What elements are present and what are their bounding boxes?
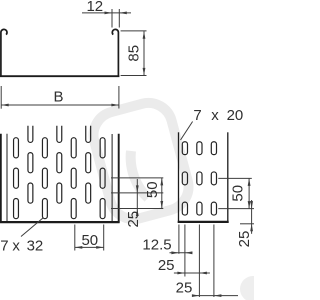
side bottom dimensions 12.5, 25, 25 (column offsets) (170, 225, 239, 298)
wire extension line bottom (121, 75, 147, 77)
slot column 3 row 2 (42, 168, 47, 188)
slot column 3 row 3 (211, 202, 216, 215)
cross-section view: U-channel profile (0, 29, 119, 76)
plan view slots 7x32 (14, 126, 106, 219)
dimension B (channel width) (1, 86, 119, 109)
wire extension line left (74, 225, 76, 251)
arrowhead up-pointing (143, 31, 146, 39)
wire extension line left (111, 9, 113, 28)
dimension 50 plan bottom (column pitch) (75, 225, 104, 251)
slot column 1 row 3 (182, 202, 187, 215)
svg-text:50: 50 (230, 185, 247, 202)
wire dimension line 25 (251, 200, 253, 234)
wire dimension line (1, 104, 119, 106)
arrowhead up-pointing (160, 178, 163, 186)
arrowhead right-pointing outside (177, 272, 185, 275)
arrowhead left-pointing outside (199, 272, 207, 275)
wire extension line right (103, 225, 105, 251)
leader line for 7x20 label (181, 122, 193, 141)
wire extension line row 2 centre (218, 177, 252, 179)
svg-text:50: 50 (81, 232, 98, 249)
slot column 6 row 1 (86, 153, 91, 173)
slot column 1 row 1 (14, 138, 19, 158)
watermark logo band (88, 98, 194, 225)
wire dimension line 50 (161, 178, 163, 209)
arrowhead right-pointing outside (192, 294, 200, 297)
arrowhead up-pointing outside (250, 224, 253, 232)
wire extension line right (118, 86, 120, 109)
slot column 1 row 1 (182, 142, 187, 155)
wire dimension line 25 first (174, 272, 210, 274)
side view slots 7x20 (182, 142, 216, 215)
svg-text:25: 25 (158, 257, 175, 274)
slot column 3 row 2 (211, 172, 216, 185)
svg-text:50: 50 (144, 181, 161, 198)
arrowhead right-pointing (111, 104, 119, 107)
slot column 7 row 1 (100, 138, 105, 158)
wire side right edge (227, 132, 229, 223)
slot column 3 row 1 (42, 138, 47, 158)
wire channel bottom (0, 75, 119, 77)
wire extension line row 3 centre (111, 208, 163, 210)
slot column 2 cut top (28, 126, 33, 143)
svg-text:7x20: 7x20 (193, 107, 243, 124)
wire dimension line (82, 12, 131, 14)
arrowhead right-pointing outside (171, 251, 179, 254)
wire channel left wall with top curl (1, 29, 7, 76)
slot column 2 row 3 (197, 202, 202, 215)
leader line for 7x32 label (21, 218, 44, 237)
slot column 3 row 1 (211, 142, 216, 155)
side view: tray side rail with perforation (178, 132, 229, 223)
slot column 4 row 1 (57, 153, 62, 173)
arrowhead down-pointing (248, 201, 251, 209)
wire dimension line 12.5 (170, 252, 193, 254)
slot column 6 cut top (86, 126, 91, 143)
arrowhead down-pointing (143, 68, 146, 76)
slot column 6 row 2 (86, 183, 91, 203)
svg-text:12: 12 (86, 0, 103, 15)
arrowhead left-pointing outside (214, 294, 222, 297)
wire side left edge (178, 132, 180, 223)
wire plan right inner edge (111, 134, 113, 221)
arrowhead down-pointing outside (250, 201, 253, 209)
wire dimension line 50 (248, 178, 250, 208)
wire channel right wall with top curl (112, 29, 118, 76)
slot column 5 row 3 (71, 199, 76, 219)
arrowhead right-pointing (105, 12, 113, 15)
svg-text:25: 25 (125, 211, 142, 228)
slot column 2 row 1 (28, 153, 33, 173)
svg-text:12.5: 12.5 (142, 236, 171, 253)
svg-text:25: 25 (176, 280, 193, 297)
wire plan bottom edge (0, 221, 120, 223)
svg-text:25: 25 (236, 231, 253, 248)
wire extension line bottom edge level (240, 223, 254, 225)
slot column 7 row 3 (100, 199, 105, 219)
arrowhead down-pointing outside (136, 185, 139, 193)
arrowhead left-pointing outside (185, 251, 193, 254)
wire extension line top (121, 30, 147, 32)
slot column 1 row 3 (14, 199, 19, 219)
slot column 3 row 3 (42, 199, 47, 219)
dimension 85 (channel height) (121, 31, 147, 76)
arrowhead left-pointing (119, 12, 127, 15)
wire extension line right (118, 9, 120, 28)
wire dimension line 25 (136, 179, 138, 216)
plan view: tray bottom with perforation (0, 134, 120, 223)
watermark corner blob (240, 276, 266, 300)
dimension 12 (flange width) (82, 9, 131, 28)
arrowhead left-pointing (1, 104, 9, 107)
wire extension line row 3 centre (218, 208, 254, 210)
side right dimensions 50 and 25 (row pitch) (218, 178, 254, 233)
svg-text:85: 85 (126, 45, 143, 62)
wire plan left outer edge (0, 134, 2, 223)
slot column 1 row 2 (14, 168, 19, 188)
slot column 2 row 2 (28, 183, 33, 203)
plan right side dimensions 50 and 25 (row pitch) (111, 178, 163, 216)
wire plan left inner edge (6, 134, 8, 221)
wire extension line plate left edge (178, 225, 180, 254)
wire plan right outer edge (118, 134, 120, 223)
wire dimension line (75, 246, 104, 248)
svg-text:B: B (53, 88, 63, 105)
arrowhead up-pointing (248, 178, 251, 186)
arrowhead up-pointing outside (136, 209, 139, 217)
wire extension line column 2 (198, 225, 200, 298)
slot column 5 row 1 (71, 138, 76, 158)
wire dimension line (143, 31, 145, 75)
wire side bottom edge (178, 221, 229, 223)
wire extension line staggered row centre (111, 192, 163, 194)
slot column 2 row 1 (197, 142, 202, 155)
slot column 5 row 2 (71, 168, 76, 188)
wire extension line column 1 (184, 225, 186, 277)
slot column 4 cut top (57, 126, 62, 143)
wire dimension line 25 second (194, 295, 238, 297)
wire extension line left (0, 86, 2, 109)
slot column 1 row 2 (182, 172, 187, 185)
slot column 4 row 2 (57, 183, 62, 203)
arrowhead right-pointing (96, 246, 104, 249)
slot column 7 row 2 (100, 168, 105, 188)
arrowhead down-pointing (160, 201, 163, 209)
arrowhead left-pointing (75, 246, 83, 249)
wire extension line column 3 (213, 225, 215, 298)
slot column 2 row 2 (197, 172, 202, 185)
wire extension line row 2 centre (111, 177, 163, 179)
